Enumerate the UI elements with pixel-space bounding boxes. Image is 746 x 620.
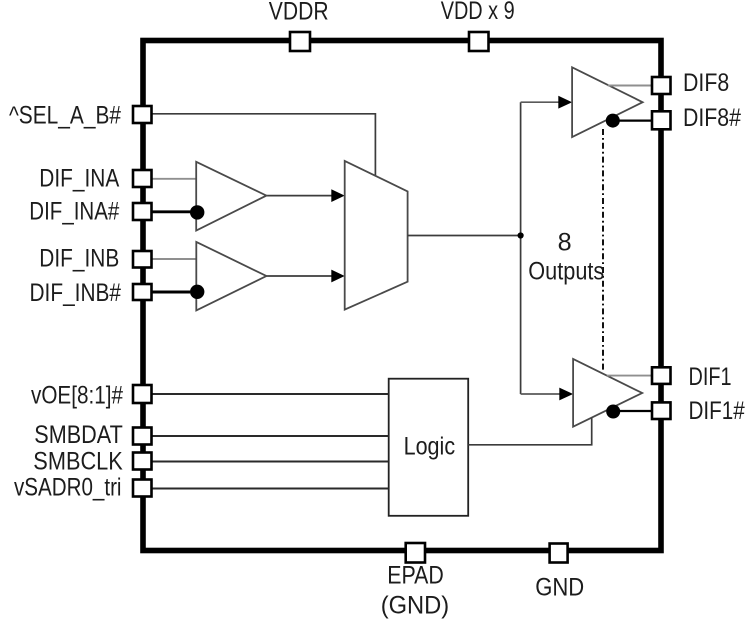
arrowhead into mux input B	[331, 270, 344, 283]
wire buffer to DIF8 pin	[608, 85, 652, 87]
pin ^SEL_A_B#	[133, 106, 152, 123]
svg-text:(GND): (GND)	[381, 592, 450, 620]
pin VDD x 9	[469, 32, 489, 51]
svg-text:^SEL_A_B#: ^SEL_A_B#	[9, 102, 121, 130]
svg-text:Outputs: Outputs	[528, 258, 604, 286]
svg-text:GND: GND	[535, 574, 584, 602]
svg-text:DIF1#: DIF1#	[689, 397, 745, 425]
wire mux output to junction	[408, 235, 521, 237]
svg-text:DIF_INB#: DIF_INB#	[30, 279, 122, 307]
input buffer A	[196, 162, 266, 231]
pin vOE[8:1]#	[133, 385, 152, 403]
pin DIF_INA#	[133, 203, 152, 220]
svg-text:DIF8: DIF8	[683, 69, 729, 97]
svg-text:Logic: Logic	[404, 433, 456, 461]
svg-text:SMBCLK: SMBCLK	[33, 448, 123, 476]
chip body border U1	[143, 41, 661, 551]
pin VDDR	[290, 32, 310, 51]
pin DIF_INA	[133, 170, 152, 187]
svg-text:vSADR0_tri: vSADR0_tri	[14, 473, 122, 501]
svg-text:SMBDAT: SMBDAT	[34, 421, 123, 449]
wire DIF_INA to buffer A + input	[152, 178, 197, 180]
wire trunk to bottom output buffer	[521, 393, 561, 395]
svg-text:DIF_INA: DIF_INA	[39, 165, 119, 193]
wire DIF_INA# to buffer A - input bubble	[152, 210, 191, 213]
svg-text:8: 8	[558, 229, 572, 257]
wire DIF_INB# to buffer B - input bubble	[152, 291, 191, 294]
svg-text:VDDR: VDDR	[269, 0, 329, 26]
pin DIF1	[652, 367, 671, 384]
junction dot on trunk	[518, 232, 524, 238]
wire trunk to top output buffer	[521, 101, 560, 103]
svg-text:DIF_INA#: DIF_INA#	[29, 198, 119, 226]
wire buffer to DIF1 pin	[607, 375, 652, 377]
pin DIF1#	[652, 402, 671, 419]
svg-text:vOE[8:1]#: vOE[8:1]#	[31, 381, 123, 409]
svg-text:VDD x 9: VDD x 9	[441, 0, 515, 25]
pin EPAD	[406, 543, 425, 563]
inversion bubble buffer A	[190, 205, 204, 219]
pin vSADR0_tri	[133, 480, 152, 497]
wire vSADR0_tri to logic	[152, 488, 389, 490]
wire buffer A output to mux	[266, 195, 333, 197]
output buffer DIF8	[572, 67, 643, 137]
arrowhead into bottom output buffer	[559, 388, 573, 401]
pin DIF8	[652, 77, 671, 94]
wire SMBDAT to logic	[152, 435, 389, 437]
mux A/B	[345, 161, 408, 310]
wire bubble to DIF8# pin	[620, 119, 653, 121]
pin DIF_INB#	[133, 284, 152, 300]
dash-dot line between output buffers	[602, 129, 604, 371]
pin DIF8#	[652, 111, 671, 129]
pin DIF_INB	[133, 251, 152, 268]
wire buffer B output to mux	[266, 275, 333, 277]
inversion bubble buffer B	[190, 285, 204, 299]
wire logic output to DIF1 buffer	[468, 418, 592, 445]
svg-text:DIF8#: DIF8#	[683, 104, 741, 132]
arrowhead into mux input A	[331, 189, 344, 202]
pin SMBDAT	[133, 428, 152, 445]
wire SMBCLK to logic	[152, 461, 389, 463]
inversion bubble DIF8#	[606, 114, 620, 128]
pin SMBCLK	[133, 453, 152, 470]
wire SEL_A_B# to mux select	[152, 114, 376, 176]
svg-text:EPAD: EPAD	[387, 562, 444, 590]
output buffer DIF1	[573, 359, 642, 427]
input buffer B	[196, 242, 266, 311]
inversion bubble DIF1#	[606, 405, 620, 419]
pin GND	[550, 544, 568, 563]
svg-text:DIF_INB: DIF_INB	[39, 244, 119, 272]
logic block	[389, 379, 469, 516]
wire bubble to DIF1# pin	[620, 410, 653, 412]
svg-text:DIF1: DIF1	[689, 363, 732, 391]
wire output trunk vertical	[520, 102, 522, 394]
arrowhead into top output buffer	[558, 96, 572, 109]
wire vOE[8:1]# to logic	[152, 393, 389, 395]
wire DIF_INB to buffer B + input	[152, 258, 197, 260]
